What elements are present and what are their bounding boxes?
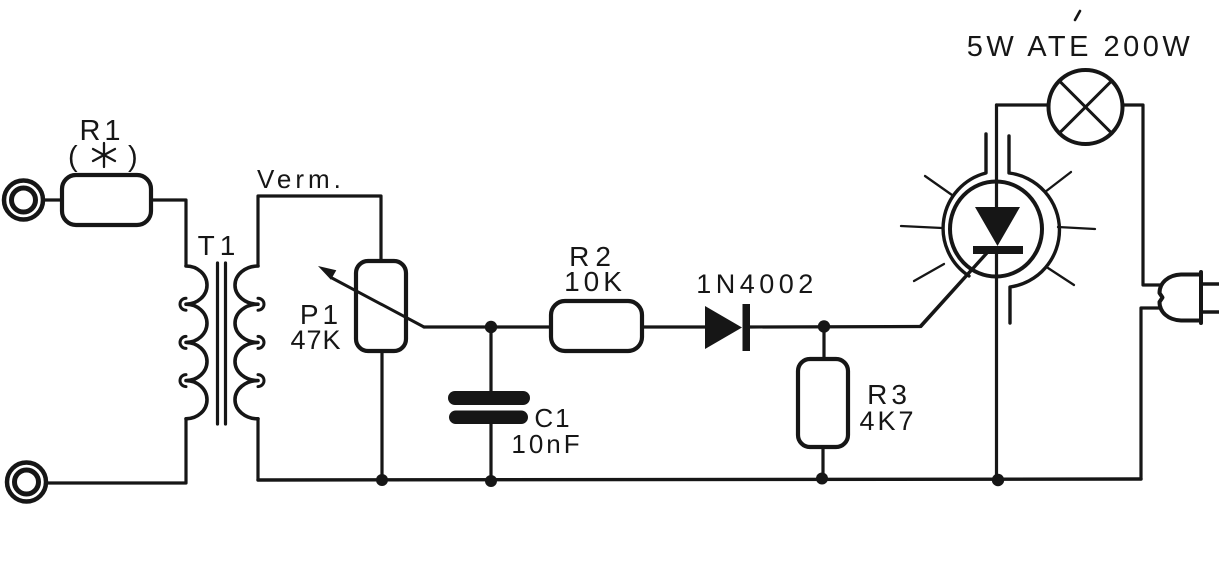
potentiometer P1 body	[356, 261, 406, 351]
wire D1 to gate corner	[750, 325, 920, 329]
label (*) note	[68, 141, 138, 173]
svg-text:1N4002: 1N4002	[696, 269, 818, 299]
svg-text:10K: 10K	[564, 266, 626, 297]
junction dot C1 top	[485, 321, 497, 333]
lamp cross	[1059, 81, 1111, 133]
SCR housing arc right	[1009, 136, 1059, 323]
plug face edge	[1199, 272, 1203, 323]
wire gate diagonal	[920, 252, 988, 327]
transformer T1 secondary winding	[235, 266, 258, 419]
wire C1 top	[489, 327, 492, 391]
SCR triangle	[975, 207, 1020, 246]
svg-text:10nF: 10nF	[511, 429, 582, 459]
wire wiper to R2	[424, 325, 551, 328]
plug body	[1160, 275, 1202, 321]
wire terminal to R1	[43, 198, 62, 201]
accent over E	[1075, 11, 1080, 20]
wire rail to plug lower prong	[1141, 308, 1161, 479]
input terminal bottom	[7, 463, 46, 502]
resistor R2	[551, 301, 642, 351]
svg-text:5W ATE 200W: 5W ATE 200W	[967, 31, 1194, 63]
input terminal top	[4, 181, 43, 220]
wire SCR top to lamp	[997, 103, 1049, 106]
plug prong upper	[1201, 282, 1219, 285]
rays around SCR	[901, 172, 1095, 285]
wire C1 bottom	[489, 424, 492, 481]
wire R1 to transformer primary	[151, 200, 186, 266]
primary winding cusps	[180, 298, 186, 386]
transformer T1 primary winding	[186, 266, 207, 419]
bottom rail	[258, 479, 1141, 480]
svg-text:47K: 47K	[290, 325, 341, 355]
svg-text:Verm.: Verm.	[257, 164, 345, 194]
secondary winding cusps	[258, 298, 264, 386]
SCR cathode wire	[995, 254, 998, 479]
resistor R3	[798, 359, 848, 447]
wire R3 top	[822, 327, 825, 360]
wire primary bottom to terminal	[46, 419, 186, 483]
SCR anode wire	[995, 105, 998, 207]
svg-text:4K7: 4K7	[859, 406, 916, 436]
transformer core	[218, 263, 226, 424]
junction dot R3 bottom	[816, 473, 828, 485]
diode D1 cathode bar	[743, 304, 751, 351]
wire R3 bottom	[821, 447, 824, 479]
svg-text:): )	[128, 141, 138, 173]
wire R2 to D1	[642, 325, 706, 328]
junction dot C1 bottom	[485, 475, 497, 487]
resistor R1	[62, 175, 151, 225]
junction dot P1 bottom	[376, 474, 388, 486]
wire P1 bottom	[380, 351, 383, 480]
capacitor C1 plates	[448, 391, 530, 424]
SCR inner circle	[950, 182, 1042, 277]
SCR cathode bar	[973, 246, 1023, 254]
plug prong lower	[1201, 310, 1219, 313]
wire lamp to plug upper prong	[1123, 105, 1161, 285]
SCR gate lead	[921, 252, 988, 327]
junction dot R3 top	[818, 320, 830, 332]
junction dot SCR bottom	[992, 474, 1004, 486]
wire secondary top to P1 top	[258, 196, 381, 266]
svg-text:(: (	[68, 141, 78, 173]
diode D1 anode triangle	[705, 306, 742, 349]
P1 wiper arrow	[318, 266, 424, 327]
SCR housing arc left	[943, 134, 986, 276]
wire secondary bottom	[256, 419, 259, 480]
svg-text:R1: R1	[79, 115, 124, 147]
lamp circle	[1049, 70, 1123, 144]
svg-text:T1: T1	[198, 230, 241, 261]
